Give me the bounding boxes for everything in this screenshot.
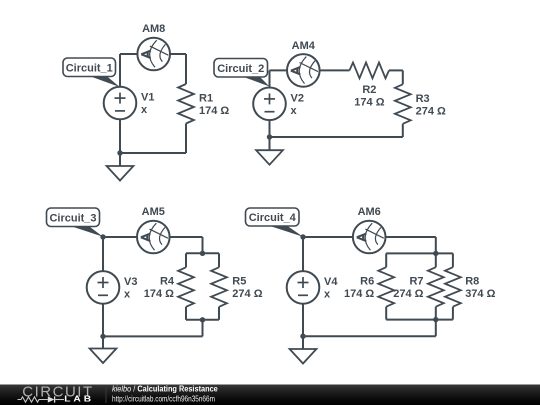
wire AM8 to corner: [170, 53, 186, 55]
junction node circuit 1: [117, 150, 122, 155]
wire parallel top rail: [186, 252, 219, 254]
junction node circuit 4 bottom: [300, 334, 305, 339]
wire node to AM6: [303, 236, 353, 238]
wire node to V3: [102, 237, 104, 271]
wire V1 to ground: [119, 119, 121, 166]
wire bottom rail: [120, 152, 186, 154]
svg-text:Circuit_2: Circuit_2: [217, 63, 264, 75]
wire node to V4: [302, 237, 304, 271]
wire to AM4 left: [270, 69, 288, 71]
wire bottom rail: [303, 335, 436, 337]
junction node circuit 4 top: [300, 234, 305, 239]
resistor R4 body: [178, 267, 194, 307]
wire down from parallel: [435, 320, 437, 337]
wire parallel top rail: [386, 252, 453, 254]
wire R8 top lead: [452, 253, 454, 267]
voltage source V1: [104, 87, 137, 120]
svg-text:R1: R1: [199, 93, 213, 105]
footer separator: [105, 387, 107, 403]
junction parallel top circuit 3: [200, 251, 205, 256]
svg-text:V1: V1: [141, 92, 154, 104]
voltage source V2: [253, 88, 286, 121]
svg-text:174 Ω: 174 Ω: [354, 96, 384, 108]
resistor R5 body: [211, 267, 227, 307]
svg-text:R2: R2: [362, 84, 376, 96]
node label Circuit_4: [246, 208, 304, 237]
svg-text:x: x: [141, 104, 148, 116]
ammeter AM8: [137, 38, 170, 71]
footer url line: [112, 394, 215, 404]
wire R7 top lead: [435, 253, 437, 267]
resistor R2 body: [350, 63, 390, 79]
svg-text:274 Ω: 274 Ω: [393, 288, 423, 300]
junction parallel bottom circuit 3: [200, 317, 205, 322]
svg-text:R4: R4: [160, 276, 175, 288]
wire AM6 to corner: [386, 236, 436, 238]
svg-text:R8: R8: [465, 276, 479, 288]
svg-text:V2: V2: [291, 92, 304, 104]
wire R3 bottom: [402, 124, 404, 137]
wire down from parallel: [202, 320, 204, 337]
svg-text:http://circuitlab.com/ccfh96n3: http://circuitlab.com/ccfh96n35n66m: [112, 394, 215, 404]
wire AM5 to corner: [170, 236, 203, 238]
ground: [290, 349, 317, 364]
svg-text:R5: R5: [232, 276, 246, 288]
svg-text:Circuit_1: Circuit_1: [66, 62, 113, 74]
ground: [107, 166, 134, 181]
wire R1 bottom: [185, 124, 187, 154]
svg-text:AM8: AM8: [142, 23, 165, 35]
svg-text:x: x: [124, 288, 131, 300]
svg-text:274 Ω: 274 Ω: [416, 105, 446, 117]
ammeter AM5: [137, 221, 170, 254]
logo diode glyph: [48, 396, 55, 402]
ammeter AM6: [353, 221, 386, 254]
wire V1 top vertical: [119, 54, 121, 88]
svg-text:Circuit_4: Circuit_4: [249, 212, 297, 224]
wire R5 top lead: [218, 253, 220, 267]
footer bar: [0, 385, 540, 405]
node label Circuit_3: [47, 208, 104, 237]
wire down to R3: [402, 70, 404, 84]
wire V2 to ground: [269, 120, 271, 150]
wire AM4 to R2: [320, 69, 350, 71]
resistor R8 body: [445, 267, 461, 307]
footer title line: [112, 384, 218, 393]
wire R6 bottom lead: [385, 307, 387, 320]
svg-text:AM6: AM6: [358, 206, 381, 218]
svg-text:R6: R6: [360, 276, 374, 288]
svg-text:x: x: [324, 288, 331, 300]
svg-text:V3: V3: [124, 276, 137, 288]
wire to AM8 left: [120, 53, 138, 55]
svg-text:Circuit_3: Circuit_3: [49, 212, 96, 224]
wire V4 to ground: [302, 304, 304, 349]
svg-text:174 Ω: 174 Ω: [344, 288, 374, 300]
wire R4 bottom lead: [185, 307, 187, 320]
wire V2 top vertical: [269, 70, 271, 88]
junction node circuit 3 top: [100, 234, 105, 239]
svg-text:174 Ω: 174 Ω: [199, 105, 229, 117]
wire down to R1: [185, 54, 187, 84]
ground: [256, 150, 283, 165]
wire R5 bottom lead: [218, 307, 220, 320]
resistor R1 body: [178, 84, 194, 124]
resistor R7 body: [428, 267, 444, 307]
wire R4 top lead: [185, 253, 187, 267]
svg-text:R3: R3: [416, 93, 430, 105]
wire R7 bottom lead: [435, 307, 437, 320]
junction node circuit 3 bottom: [100, 334, 105, 339]
wire down to split: [435, 237, 437, 253]
svg-text:LAB: LAB: [64, 395, 94, 404]
svg-text:x: x: [291, 105, 298, 117]
junction parallel bottom circuit 4: [433, 317, 438, 322]
svg-text:AM5: AM5: [142, 206, 165, 218]
voltage source V3: [87, 271, 120, 304]
logo resistor glyph: [18, 397, 48, 402]
resistor R6 body: [378, 267, 394, 307]
resistor R3 body: [395, 84, 411, 124]
wire down to split: [202, 237, 204, 253]
wire node to AM5: [103, 236, 137, 238]
wire R8 bottom lead: [452, 307, 454, 320]
svg-text:V4: V4: [324, 276, 338, 288]
wire parallel bottom rail: [386, 319, 453, 321]
node label Circuit_2: [214, 59, 270, 87]
node label Circuit_1: [63, 58, 120, 87]
svg-text:R7: R7: [409, 276, 423, 288]
wire bottom rail: [103, 335, 203, 337]
junction parallel top circuit 4: [433, 251, 438, 256]
svg-text:374 Ω: 374 Ω: [465, 288, 495, 300]
wire R6 top lead: [385, 253, 387, 267]
svg-text:AM4: AM4: [292, 40, 316, 52]
ammeter AM4: [287, 54, 320, 87]
junction node circuit 2: [267, 134, 272, 139]
svg-text:174 Ω: 174 Ω: [144, 288, 174, 300]
svg-text:274 Ω: 274 Ω: [232, 288, 262, 300]
wire V3 to ground: [102, 304, 104, 349]
voltage source V4: [287, 271, 320, 304]
wire parallel bottom rail: [186, 319, 219, 321]
svg-text:kielbo / Calculating Resistanc: kielbo / Calculating Resistance: [112, 384, 218, 393]
ground: [90, 349, 117, 364]
wire R2 to corner: [389, 69, 403, 71]
footer CircuitLab logo: [18, 384, 95, 404]
wire bottom rail: [270, 136, 403, 138]
